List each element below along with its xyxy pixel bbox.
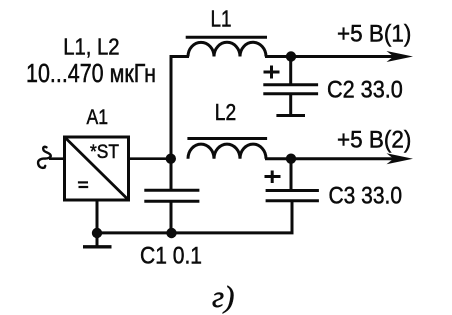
inductor L2 core bar — [187, 137, 267, 140]
ground symbol bar — [83, 245, 112, 248]
arrowhead +5V(1) — [387, 51, 414, 62]
capacitor C3 plates — [266, 189, 319, 192]
ground bar under C2 — [276, 114, 305, 117]
svg-text:L1: L1 — [211, 6, 232, 32]
node junction A1 output — [166, 154, 176, 164]
capacitor C1 plates — [144, 189, 199, 192]
svg-text:L1, L2: L1, L2 — [63, 33, 119, 59]
wire A1 ground stem — [96, 200, 99, 246]
wire +5V(2) output line — [291, 157, 396, 160]
wire +5V(1) output line — [291, 55, 396, 58]
arrowhead +5V(2) — [387, 153, 414, 164]
node junction L2 output — [286, 154, 296, 164]
node junction A1 ground — [92, 228, 102, 238]
svg-text:C2 33.0: C2 33.0 — [327, 77, 403, 104]
inductor L2 winding — [188, 144, 266, 159]
svg-text:A1: A1 — [87, 106, 109, 129]
wire A1 output to node — [128, 157, 172, 160]
wire C3 top stem — [290, 160, 293, 191]
svg-text:L2: L2 — [215, 99, 236, 125]
module A1 equals marking — [78, 181, 88, 183]
node junction L1 output — [286, 51, 296, 61]
capacitor C2 polarity plus — [264, 71, 280, 74]
svg-text:г): г) — [212, 279, 234, 314]
wire C2 bottom stem — [289, 94, 292, 116]
wire L1 left lead — [170, 55, 190, 58]
wire L1 right lead — [265, 55, 292, 58]
module A1 box — [65, 137, 129, 200]
svg-text:+5 В(2): +5 В(2) — [337, 127, 411, 154]
inductor L1 winding — [188, 42, 266, 56]
capacitor C3 polarity plus — [265, 175, 281, 178]
wire C2 top stem — [289, 58, 292, 84]
wire A1 input — [49, 157, 64, 160]
wire C3 bottom stem and corner — [96, 201, 293, 233]
svg-text:+5 В(1): +5 В(1) — [337, 21, 411, 48]
input break squiggle — [43, 147, 50, 159]
svg-text:C1 0.1: C1 0.1 — [140, 242, 202, 269]
inductor L1 core bar — [186, 36, 267, 39]
wire C1 bottom stem — [170, 201, 173, 233]
svg-text:C3 33.0: C3 33.0 — [329, 183, 403, 210]
svg-text:10...470 мкГн: 10...470 мкГн — [26, 58, 156, 88]
svg-text:*ST: *ST — [90, 142, 119, 163]
capacitor C2 plates — [263, 83, 318, 86]
wire L2 right lead — [265, 157, 292, 160]
module A1 diagonal — [65, 137, 129, 200]
node junction C1 to rail — [166, 228, 176, 238]
wire main vertical node — [170, 55, 173, 190]
